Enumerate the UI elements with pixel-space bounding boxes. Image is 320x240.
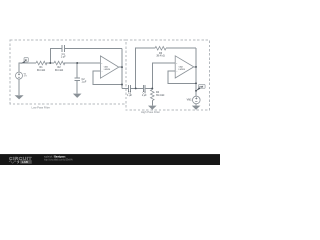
svg-text:LM324: LM324 bbox=[179, 69, 186, 71]
svg-text:1 µF: 1 µF bbox=[127, 94, 132, 97]
svg-text:1 µF: 1 µF bbox=[61, 55, 66, 58]
svg-text:LAB: LAB bbox=[22, 160, 29, 164]
svg-text:LM324: LM324 bbox=[104, 69, 111, 71]
svg-text:1 µF: 1 µF bbox=[82, 81, 87, 84]
svg-text:39.4 kΩ: 39.4 kΩ bbox=[55, 69, 64, 72]
svg-text:39.4 kΩ: 39.4 kΩ bbox=[37, 69, 46, 72]
svg-text:39.4 kΩ: 39.4 kΩ bbox=[156, 55, 165, 58]
svg-text:39.4 kΩ: 39.4 kΩ bbox=[156, 94, 165, 97]
svg-text:High Pass Filter: High Pass Filter bbox=[141, 110, 160, 114]
svg-text:VM1: VM1 bbox=[187, 98, 193, 101]
svg-text:http://circuitlab.com/c/59e84t: http://circuitlab.com/c/59e84t bbox=[44, 159, 73, 162]
svg-text:out: out bbox=[199, 86, 203, 89]
svg-text:1 µF: 1 µF bbox=[142, 94, 147, 97]
svg-text:Low Pass Filter: Low Pass Filter bbox=[32, 105, 50, 109]
svg-text:egdetok / Bandpass: egdetok / Bandpass bbox=[44, 156, 66, 159]
